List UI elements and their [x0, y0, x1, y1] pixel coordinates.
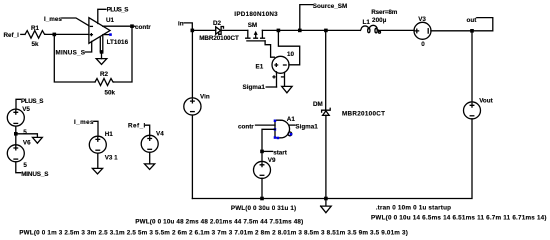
svg-text:L1: L1 — [363, 19, 371, 26]
wire A1 output to Sigma1 — [290, 124, 319, 131]
node PLUS_S (opamp supply label) — [107, 7, 129, 14]
svg-text:H1: H1 — [105, 131, 114, 138]
svg-text:R1: R1 — [31, 25, 40, 32]
wire E1 minus loop to rail — [278, 30, 299, 64]
voltage source V5 — [7, 106, 30, 145]
svg-text:MINUS_S: MINUS_S — [21, 171, 48, 178]
dependent source E1 — [256, 51, 295, 73]
svg-text:0: 0 — [421, 41, 425, 48]
value PWL Vout — [371, 214, 547, 221]
svg-text:MBR20100CT: MBR20100CT — [199, 35, 239, 42]
svg-text:DM: DM — [313, 101, 323, 108]
wire Vout to bottom rail — [192, 119, 472, 199]
wire A1 second input to start — [262, 129, 275, 151]
svg-text:Rser=8m: Rser=8m — [371, 9, 398, 16]
node I_mes (label top) — [44, 16, 62, 23]
value PWL V4 — [19, 229, 408, 236]
svg-text:200µ: 200µ — [372, 17, 387, 24]
svg-text:PWL(0 0 10u 14 6.5ms 14 6.51ms: PWL(0 0 10u 14 6.5ms 14 6.51ms 11 6.7m 1… — [371, 214, 547, 221]
svg-text:Sigma1: Sigma1 — [243, 84, 266, 91]
node junction E1 feedback — [277, 29, 281, 33]
svg-text:PWL(0 0 1m 3 2.5m 3 3m 2.5 3.1: PWL(0 0 1m 3 2.5m 3 3m 2.5 3.1m 2.5 5m 3… — [19, 229, 408, 236]
wire junction to ground — [16, 134, 38, 138]
node MINUS_S (opamp supply label) — [56, 50, 86, 57]
ground (V5/V6) — [33, 137, 43, 143]
pin Qbar unconnected stub — [103, 33, 112, 36]
svg-text:Ref_I: Ref_I — [4, 32, 20, 39]
svg-text:V3 1: V3 1 — [105, 154, 118, 161]
wire PLUS_S to opamp top pin — [98, 9, 106, 23]
svg-text:MINUS_S: MINUS_S — [56, 50, 86, 57]
svg-text:Sigma1: Sigma1 — [295, 124, 318, 131]
svg-text:PWL(0 0 30u 0 31u 1): PWL(0 0 30u 0 31u 1) — [231, 205, 296, 212]
wire out down to Vout — [471, 31, 473, 102]
node Sigma1 label (E1) — [243, 84, 277, 91]
node junction out — [470, 29, 474, 33]
svg-text:SM: SM — [248, 22, 257, 29]
wire gate staircase to E1 — [265, 41, 274, 57]
svg-text:contr: contr — [135, 24, 151, 31]
voltage source V9 — [254, 151, 276, 198]
wire R2 to output vertical — [114, 26, 133, 82]
svg-text:V9: V9 — [268, 157, 276, 164]
svg-text:V6: V6 — [23, 140, 31, 147]
node in label — [178, 21, 192, 31]
node Ref_I (opamp input label) — [4, 32, 20, 39]
node junction in/Vin — [191, 29, 195, 33]
voltage source V6 — [7, 140, 31, 173]
svg-text:Source_SM: Source_SM — [313, 3, 347, 10]
value PWL V9 — [231, 205, 296, 212]
svg-text:5k: 5k — [32, 41, 40, 48]
svg-text:5: 5 — [23, 162, 27, 169]
node junction start — [260, 150, 264, 154]
voltage source V4 — [141, 130, 164, 164]
svg-text:MBR20100CT: MBR20100CT — [342, 111, 385, 118]
diode D2 schottky — [199, 20, 239, 42]
svg-text:V4: V4 — [156, 130, 164, 137]
ground (below opamp) — [96, 59, 107, 65]
svg-text:I_mes: I_mes — [44, 16, 62, 23]
wire L1 to V3 — [379, 29, 415, 31]
svg-text:LT1016: LT1016 — [107, 39, 129, 46]
wire MINUS_S to opamp pin — [85, 41, 91, 52]
wire I_mes diagonal to opamp plus input — [62, 18, 89, 26]
node Ref_I label (V4) — [128, 122, 150, 135]
node Source_SM label — [300, 3, 347, 31]
transistor SM IPD180N10N3 — [234, 11, 278, 41]
wire top rail (switch node) — [262, 29, 360, 31]
svg-text:E1: E1 — [256, 63, 264, 70]
svg-text:Ref_I: Ref_I — [128, 122, 146, 129]
voltage source Vin — [184, 30, 210, 198]
E1 control pins — [273, 72, 285, 87]
node junction ground bottom rail — [324, 197, 328, 201]
wire opamp output to contr — [103, 25, 132, 27]
svg-text:D2: D2 — [213, 20, 222, 27]
svg-text:R2: R2 — [100, 71, 109, 78]
wire R1 to opamp minus node — [46, 33, 89, 35]
svg-text:5: 5 — [23, 129, 27, 136]
node contr label (top) — [132, 24, 151, 31]
svg-text:out: out — [467, 17, 478, 24]
directive .tran — [376, 205, 451, 212]
node start label — [262, 150, 288, 157]
inductor L1 — [360, 9, 397, 33]
svg-text:PWL(0 0 10u 48 2ms 48 2.01ms 4: PWL(0 0 10u 48 2ms 48 2.01ms 44 7.5m 44 … — [135, 219, 303, 226]
value PWL Vin — [135, 219, 303, 226]
svg-text:IPD180N10N3: IPD180N10N3 — [234, 11, 278, 18]
svg-text:.tran 0 10m 0 1u startup: .tran 0 10m 0 1u startup — [376, 205, 451, 212]
svg-text:PLUS_S: PLUS_S — [107, 7, 129, 14]
wire in to D2 — [192, 29, 215, 31]
node junction DM column — [324, 29, 328, 33]
svg-text:in: in — [178, 21, 184, 28]
node junction R1/R2/opamp — [53, 33, 57, 37]
dependent source H1 — [89, 131, 118, 168]
opamp ground pins — [100, 36, 104, 59]
node junction Source_SM tap — [298, 29, 302, 33]
resistor R2 — [95, 71, 116, 97]
svg-text:start: start — [273, 150, 288, 157]
node PLUS_S label (V5) — [16, 98, 44, 109]
svg-text:Vin: Vin — [200, 93, 210, 100]
svg-text:U1: U1 — [106, 17, 115, 24]
node out label loop — [467, 17, 493, 31]
svg-text:10: 10 — [287, 51, 295, 58]
ground (bottom rail) — [321, 199, 332, 213]
svg-text:Vout: Vout — [479, 98, 493, 105]
ground (E1) — [282, 86, 292, 92]
svg-text:PLUS_S: PLUS_S — [21, 98, 44, 105]
svg-text:contr: contr — [238, 124, 254, 131]
node contr label (A1 input) — [238, 124, 254, 131]
wire contr to A1 — [256, 124, 276, 126]
node junction V5/V6/ground — [14, 132, 18, 136]
gate A1 — [274, 116, 296, 139]
svg-text:50k: 50k — [105, 90, 116, 97]
svg-text:A1: A1 — [287, 116, 296, 123]
voltage source Vout — [464, 98, 494, 119]
svg-text:I_mes: I_mes — [74, 119, 94, 126]
op-amp U1 LT1016 — [89, 17, 129, 46]
wire D2 to MOSFET drain — [221, 29, 248, 31]
node junction output/contr — [130, 24, 134, 28]
ground (V4) — [145, 164, 155, 170]
node I_mes label (H1) — [74, 119, 98, 137]
wire Ref_I to R1 — [21, 33, 25, 35]
diode DM schottky — [313, 30, 385, 198]
node MINUS_S label (V6) — [21, 171, 48, 178]
voltage source V3 (ammeter) — [414, 16, 431, 48]
resistor R1 — [25, 25, 46, 48]
wire V3 to out node — [431, 30, 472, 32]
wire junction down to R2 — [54, 34, 95, 82]
ground (H1) — [92, 168, 102, 174]
node junction V9 bottom rail — [260, 197, 264, 201]
svg-text:V5: V5 — [22, 106, 30, 113]
svg-text:V3: V3 — [418, 16, 426, 23]
